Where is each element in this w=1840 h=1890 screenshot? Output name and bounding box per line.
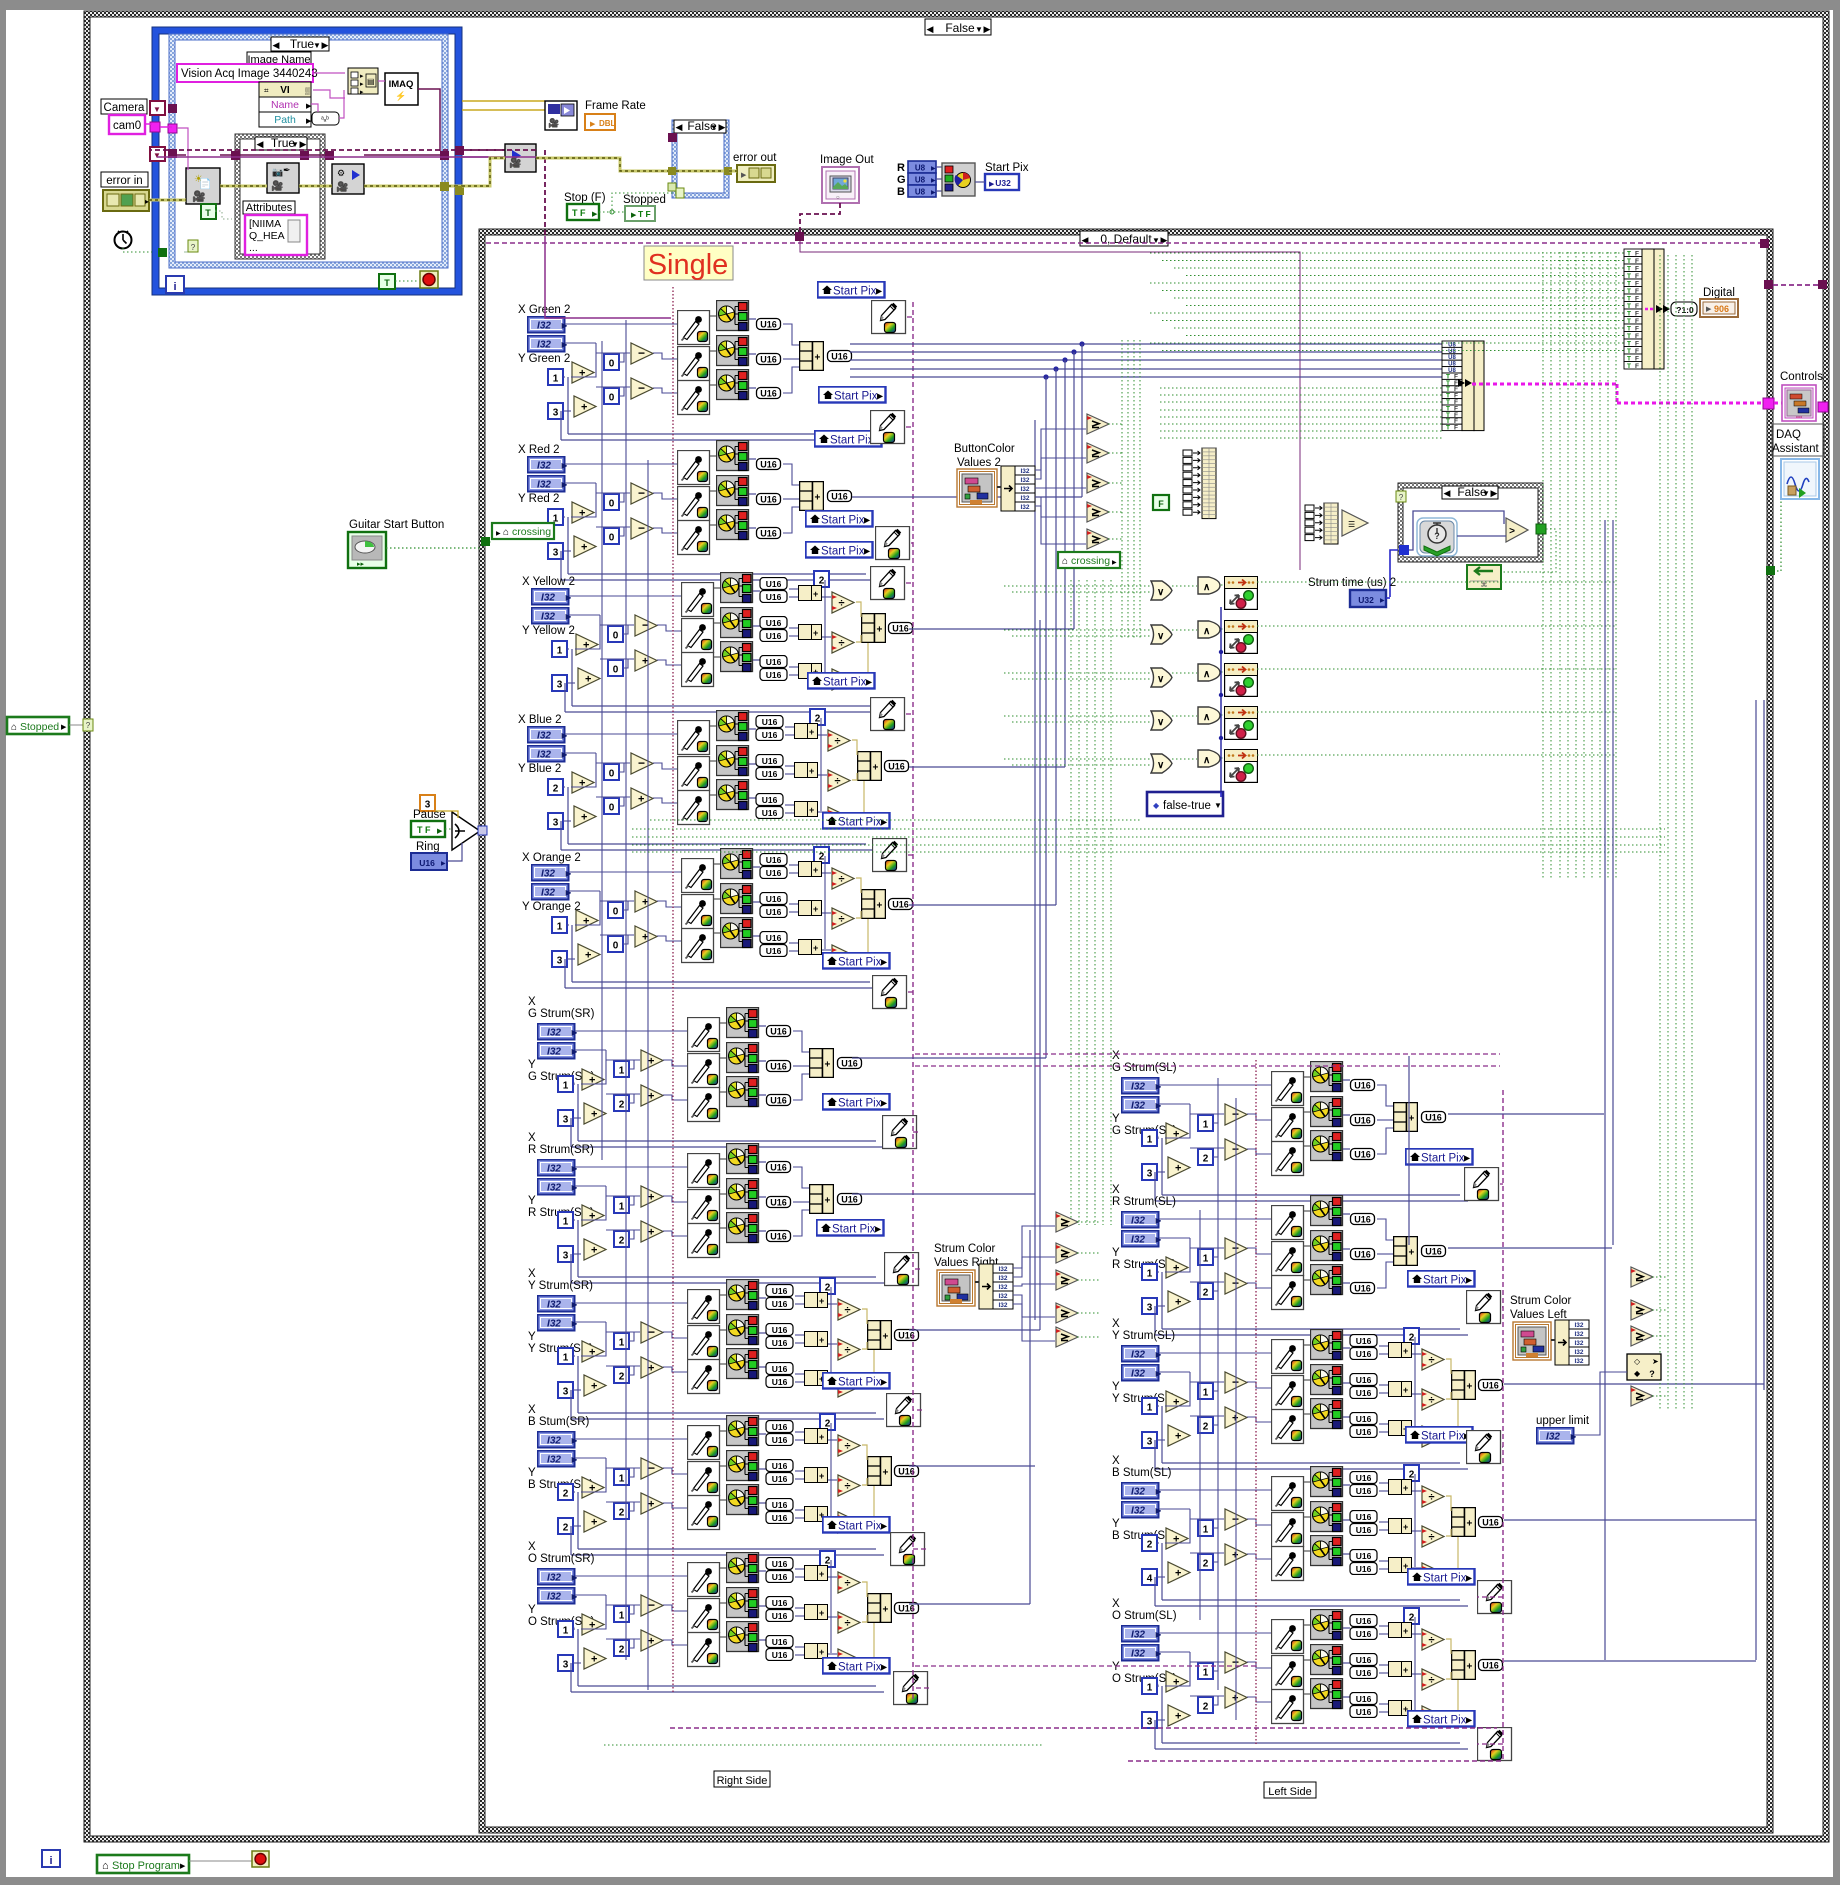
svg-text:▶: ▶: [496, 531, 501, 537]
RGB cluster R Strum(SL) 1: [1311, 1196, 1343, 1226]
svg-text:I32: I32: [1574, 1358, 1583, 1365]
purple pen chain column 1: [912, 302, 914, 1700]
constant 1 Y Strum(SL): [1198, 1383, 1213, 1399]
svg-text:▶: ▶: [719, 122, 726, 132]
wire crossing left: [485, 541, 492, 543]
constant 2 B Stum(SL): [1198, 1554, 1213, 1570]
wire pen to chain: [906, 426, 913, 428]
constant 2 R Strum(SL): [1198, 1283, 1213, 1299]
wire pen to chain: [913, 1548, 926, 1550]
divide B Stum(SR) 2: [838, 1475, 860, 1496]
error wire to false case: [462, 158, 505, 186]
svg-text:1: 1: [1203, 1525, 1209, 1536]
constant 3 X Green 2: [548, 403, 563, 419]
tag U16 out R Strum(SR): [838, 1194, 862, 1205]
add X Orange 2 2: [578, 944, 600, 965]
sub B Stum(SR) 2: [641, 1493, 663, 1514]
color dropper G Strum(SL) 1: [1272, 1072, 1304, 1106]
constant 2 X Blue 2: [810, 709, 825, 725]
svg-text:I32: I32: [1020, 495, 1029, 502]
IMAQ overlay pen node 8: [883, 1116, 917, 1149]
tag U16 B Stum(SL) 3: [1350, 1511, 1377, 1523]
string control cam0: [109, 115, 145, 134]
svg-text:X: X: [528, 996, 536, 1008]
purple wire exits right: [1773, 284, 1822, 286]
free label Single: [644, 246, 733, 280]
svg-text:▼: ▼: [1214, 801, 1222, 810]
RGB cluster X Blue 2 1: [717, 711, 749, 741]
color dropper R Strum(SR) 1: [688, 1154, 720, 1188]
tag U16 X Orange 2 2: [760, 867, 787, 879]
bundle B Stum(SL): [1452, 1508, 1476, 1537]
Digital indicator: [1700, 299, 1738, 317]
terminal I32 X O Strum(SR): [538, 1569, 579, 1585]
tag U16 X Yellow 2 6: [760, 669, 787, 681]
mini bundle O Strum(SL) 3: [1389, 1701, 1412, 1716]
sub Y Strum(SR) 1: [641, 1322, 663, 1343]
tag U16 B Stum(SL) 1: [1350, 1472, 1377, 1484]
svg-text:X Yellow 2: X Yellow 2: [522, 576, 575, 588]
svg-text:VI: VI: [280, 85, 290, 96]
svg-text:Left Side: Left Side: [1268, 1786, 1311, 1798]
tag U16 out G Strum(SR): [838, 1058, 862, 1069]
green dotted verticals right: [1542, 252, 1544, 880]
bundle B Stum(SR): [868, 1457, 892, 1486]
color dropper X Red 2 3: [678, 521, 710, 555]
svg-text:U8: U8: [915, 176, 926, 185]
constant 1 R Strum(SR): [614, 1197, 629, 1213]
svg-text:◀: ◀: [257, 139, 264, 149]
sub X Yellow 2 1: [635, 615, 657, 636]
svg-text:0: 0: [613, 665, 619, 676]
svg-text:U32: U32: [1358, 595, 1374, 605]
blue wire bundle to byte arrays: [850, 343, 1442, 345]
svg-text:Guitar Start Button: Guitar Start Button: [349, 519, 444, 531]
constant 2 X Yellow 2: [814, 571, 829, 587]
svg-text:X Red 2: X Red 2: [518, 444, 560, 456]
svg-text:2: 2: [1203, 1559, 1209, 1570]
color dropper X Yellow 2 2: [682, 619, 714, 653]
tag U16 out X Red 2: [828, 491, 852, 502]
divide B Stum(SR) 3: [838, 1512, 860, 1533]
svg-text:2: 2: [563, 1523, 569, 1534]
svg-text:Q_HEA: Q_HEA: [249, 230, 285, 242]
constant 0 X Orange 2: [608, 936, 623, 952]
constant 2 X Blue 2: [548, 779, 563, 795]
IMAQ overlay pen node 5: [871, 698, 905, 731]
convert arrows 1: [1458, 379, 1472, 387]
tag U16 B Stum(SR) 5: [766, 1499, 793, 1511]
terminal I32 X X Green 2: [528, 317, 569, 333]
svg-text:Vision Acq Image 3440243: Vision Acq Image 3440243: [181, 68, 318, 80]
sub X Orange 2 1: [635, 891, 657, 912]
mini bundle X Yellow 2 1: [799, 586, 822, 601]
add B Stum(SL) 2: [1168, 1562, 1190, 1583]
RGB cluster O Strum(SL) 1: [1311, 1610, 1343, 1640]
svg-text:X: X: [1112, 1318, 1120, 1330]
constant 2 X Orange 2: [814, 847, 829, 863]
outer case structure False frame: [84, 11, 1829, 17]
green horizontals mid rows: [1160, 387, 1442, 389]
add Y Strum(SR) 1: [582, 1341, 604, 1362]
divide X Orange 2 3: [832, 945, 854, 966]
svg-text:Y Strum(SR): Y Strum(SR): [528, 1280, 593, 1292]
svg-text:I32: I32: [998, 1302, 1007, 1309]
RGB cluster Y Strum(SR) 2: [727, 1315, 759, 1345]
svg-text:2: 2: [825, 1283, 831, 1294]
wire to stop button: [189, 1860, 252, 1862]
svg-text:2: 2: [1203, 1702, 1209, 1713]
strum SR outputs to mid verticals: [852, 1193, 1035, 1195]
long green dotted horizontals bottom: [632, 828, 1665, 830]
svg-text:Assistant: Assistant: [1772, 443, 1819, 455]
svg-text:T: T: [1627, 363, 1631, 370]
tag U16 B Stum(SL) 4: [1350, 1524, 1377, 1536]
svg-text:T F: T F: [417, 825, 431, 835]
tag U16 X Yellow 2 2: [760, 591, 787, 603]
divide Y Strum(SR) 2: [838, 1339, 860, 1360]
constant 0 X Orange 2: [608, 902, 623, 918]
svg-text:X: X: [528, 1404, 536, 1416]
svg-text:▼: ▼: [153, 105, 161, 114]
tag U16 out O Strum(SL): [1479, 1660, 1503, 1671]
greater than comparator: [1506, 518, 1528, 542]
return arrow icon: [1467, 565, 1501, 589]
svg-text:Path: Path: [274, 114, 296, 126]
svg-text:1: 1: [619, 1338, 625, 1349]
svg-text:◀: ◀: [273, 40, 280, 50]
add X Blue 2 1: [572, 772, 594, 793]
and gate 2: [1198, 621, 1220, 638]
tag U16 B Stum(SL) 2: [1350, 1485, 1377, 1497]
svg-text:0: 0: [609, 803, 615, 814]
constant 1 B Stum(SL): [1198, 1520, 1213, 1536]
svg-text:🎥: 🎥: [548, 117, 559, 128]
DBL indicator: [585, 114, 615, 130]
constant 2 B Stum(SR): [820, 1414, 835, 1430]
RGB cluster G Strum(SL) 1: [1311, 1062, 1343, 1092]
case structure True (blue hatched): [169, 34, 448, 40]
wire pen to chain: [1502, 1446, 1503, 1448]
svg-text:4: 4: [1147, 1574, 1153, 1585]
tag U16 G Strum(SL) 3: [1351, 1149, 1375, 1160]
bundle Y Strum(SL): [1452, 1371, 1476, 1400]
svg-text:3: 3: [553, 548, 559, 559]
transition cluster 1: [1225, 577, 1258, 610]
svg-text:2: 2: [553, 784, 559, 795]
svg-text:🎥: 🎥: [509, 156, 521, 169]
svg-text:0: 0: [609, 359, 615, 370]
svg-text:Controls: Controls: [1780, 371, 1823, 383]
constant 2 Y Strum(SR): [820, 1278, 835, 1294]
svg-text:▶: ▶: [989, 181, 995, 188]
constant 0 X Yellow 2: [608, 660, 623, 676]
svg-text:▶: ▶: [631, 212, 637, 219]
green long horizontal lower: [604, 1744, 1043, 1746]
divide B Stum(SL) 2: [1422, 1526, 1444, 1547]
terminal I32 Y X Red 2: [528, 476, 569, 492]
control label Camera: [101, 99, 147, 114]
constant 0 X Red 2: [604, 528, 619, 544]
terminal I32 X O Strum(SL): [1122, 1626, 1163, 1642]
svg-text:⌗: ⌗: [264, 86, 269, 95]
wire pen to chain: [908, 854, 913, 856]
wire pen to chain: [908, 991, 913, 993]
terminal I32 X B Stum(SR): [538, 1432, 579, 1448]
svg-text:▶: ▶: [984, 24, 991, 34]
or gate 5: [1151, 754, 1172, 773]
svg-text:▼: ▼: [153, 151, 161, 160]
Strum Color Values Left cluster: [1513, 1322, 1551, 1360]
tag U16 X Yellow 2 3: [760, 617, 787, 629]
mini bundle O Strum(SL) 1: [1389, 1623, 1412, 1638]
tag U16 X Blue 2 2: [756, 729, 783, 741]
sub X Green 2 1: [631, 343, 653, 364]
svg-text:▸: ▸: [360, 89, 364, 96]
svg-text:Stop Program: Stop Program: [112, 1860, 180, 1872]
RGB cluster X Orange 2 1: [721, 849, 753, 879]
svg-text:2: 2: [619, 1645, 625, 1656]
svg-text:1: 1: [1203, 1668, 1209, 1679]
svg-text:1: 1: [1147, 1683, 1153, 1694]
constant 1 O Strum(SL): [1142, 1678, 1157, 1694]
RGB cluster O Strum(SL) 2: [1311, 1645, 1343, 1675]
tag U16 out R Strum(SL): [1422, 1246, 1446, 1257]
RGB cluster B Stum(SR) 3: [727, 1485, 759, 1515]
svg-text:U16: U16: [419, 858, 435, 868]
IMAQ overlay pen node 11: [891, 1533, 925, 1566]
bundle G Strum(SR): [810, 1049, 834, 1078]
svg-text:1: 1: [563, 1081, 569, 1092]
sub O Strum(SL) 2: [1225, 1687, 1247, 1708]
svg-text:i: i: [173, 281, 176, 293]
constant 3 X Red 2: [548, 543, 563, 559]
green horizontal rows to TF array: [1150, 252, 1624, 254]
string constant Vision Acq Image 3440243: [177, 64, 313, 82]
or gate 3: [1151, 668, 1172, 687]
svg-text:DBL: DBL: [599, 119, 616, 128]
local variable Start Pix 14: [1406, 1149, 1473, 1165]
svg-text:R Strum(SL): R Strum(SL): [1112, 1196, 1176, 1208]
svg-text:I32: I32: [1574, 1340, 1583, 1347]
svg-text:Y Red 2: Y Red 2: [518, 493, 559, 505]
svg-text:2: 2: [815, 714, 821, 725]
svg-text:▶: ▶: [931, 190, 936, 196]
svg-text:▶: ▶: [306, 118, 312, 125]
constant 1 X Red 2: [548, 509, 563, 525]
RGB cluster G Strum(SR) 2: [727, 1043, 759, 1073]
svg-text:Y Green 2: Y Green 2: [518, 353, 570, 365]
svg-text:✒: ✒: [283, 165, 291, 175]
RGB cluster X Blue 2 2: [717, 746, 749, 776]
svg-text:▶: ▶: [300, 139, 307, 149]
svg-text:▶: ▶: [931, 178, 936, 184]
svg-text:2: 2: [1147, 1540, 1153, 1551]
terminal I32 Y X Orange 2: [532, 884, 573, 900]
color dropper R Strum(SL) 2: [1272, 1242, 1304, 1276]
error out indicator: [737, 165, 775, 182]
svg-text:G: G: [897, 174, 906, 186]
svg-text:2: 2: [619, 1372, 625, 1383]
terminal I32 Y X Yellow 2: [532, 608, 573, 624]
constant 2 B Stum(SL): [1404, 1465, 1419, 1481]
constant 3 O Strum(SR): [558, 1655, 573, 1671]
svg-text:3: 3: [1147, 1303, 1153, 1314]
constant 1 X Yellow 2: [552, 641, 567, 657]
Strum Color Values Right cluster: [937, 1270, 975, 1306]
tag U16 B Stum(SR) 2: [766, 1434, 793, 1446]
svg-text:I32: I32: [1020, 477, 1029, 484]
svg-text:1: 1: [1147, 1269, 1153, 1280]
svg-text:?: ?: [1434, 531, 1440, 541]
svg-text:1: 1: [1147, 1135, 1153, 1146]
svg-text:0: 0: [613, 631, 619, 642]
svg-text:2: 2: [619, 1508, 625, 1519]
terminal I32 X X Blue 2: [528, 727, 569, 743]
svg-text:ᵃₐᵇ: ᵃₐᵇ: [321, 116, 329, 123]
strum left comparators: [1631, 1267, 1653, 1287]
tag U16 O Strum(SL) 3: [1350, 1654, 1377, 1666]
local variable Start Pix 3: [815, 431, 882, 447]
svg-text:2: 2: [825, 1419, 831, 1430]
label Attributes: [243, 201, 295, 214]
svg-text:1: 1: [557, 646, 563, 657]
constant 1 G Strum(SL): [1198, 1115, 1213, 1131]
mini bundle O Strum(SR) 3: [805, 1644, 828, 1659]
color dropper R Strum(SR) 3: [688, 1224, 720, 1258]
svg-text:Y: Y: [1112, 1661, 1120, 1673]
svg-text:2: 2: [819, 852, 825, 863]
add Y Strum(SL) 2: [1168, 1425, 1190, 1446]
purple wire top of big case: [486, 242, 1764, 244]
add Y Strum(SL) 1: [1166, 1391, 1188, 1412]
local variable Start Pix 1: [818, 282, 885, 298]
in range and coerce: [1627, 1354, 1661, 1380]
wire pen to chain: [1477, 1743, 1503, 1745]
svg-text:cam0: cam0: [113, 120, 141, 132]
or gate 2: [1151, 625, 1172, 644]
local variable Start Pix 7: [823, 813, 890, 829]
RGB cluster X Orange 2 2: [721, 884, 753, 914]
svg-text:?: ?: [1399, 493, 1404, 502]
green wire to DAQ: [1773, 500, 1781, 571]
svg-text:T F: T F: [638, 209, 651, 219]
sub G Strum(SL) 1: [1225, 1104, 1247, 1125]
local variable Start Pix 12: [823, 1517, 890, 1533]
mini bundle Y Strum(SL) 3: [1389, 1421, 1412, 1436]
svg-text:[NIIMA: [NIIMA: [249, 218, 281, 230]
constant 1 R Strum(SR): [558, 1212, 573, 1228]
constant 1 X Orange 2: [552, 917, 567, 933]
add Y Strum(SR) 2: [584, 1375, 606, 1396]
RGB cluster B Stum(SL) 2: [1311, 1502, 1343, 1532]
svg-text:◆: ◆: [1153, 801, 1160, 810]
local variable Start Pix 10: [817, 1220, 884, 1236]
mini bundle B Stum(SL) 2: [1389, 1519, 1412, 1534]
color dropper X Green 2 2: [678, 347, 710, 381]
sub G Strum(SR) 1: [641, 1050, 663, 1071]
svg-text:?: ?: [86, 721, 91, 730]
terminal I32 X Y Strum(SR): [538, 1296, 579, 1312]
svg-text:I32: I32: [1020, 468, 1029, 475]
divide X Blue 2 2: [828, 770, 850, 791]
tag U16 O Strum(SR) 2: [766, 1571, 793, 1583]
terminal I32 Y B Stum(SR): [538, 1451, 579, 1467]
svg-text:error in: error in: [106, 175, 142, 187]
label error in: [101, 172, 148, 187]
divide B Stum(SR) 1: [838, 1435, 860, 1456]
local variable Start Pix 2: [819, 387, 886, 403]
svg-text:▶: ▶: [1491, 488, 1498, 498]
svg-text:▶: ▶: [61, 724, 67, 731]
mini bundle Y Strum(SL) 1: [1389, 1343, 1412, 1358]
svg-text:Frame Rate: Frame Rate: [585, 100, 646, 112]
color dropper X Red 2 2: [678, 487, 710, 521]
RGB cluster Y Strum(SL) 2: [1311, 1365, 1343, 1395]
svg-text:X Orange 2: X Orange 2: [522, 852, 581, 864]
add R Strum(SL) 2: [1168, 1291, 1190, 1312]
svg-text:I32: I32: [1020, 504, 1029, 511]
wires timer case: [1390, 550, 1398, 597]
constant 2 Y Strum(SL): [1404, 1328, 1419, 1344]
tag U16 X Yellow 2 1: [760, 578, 787, 590]
tag U16 Y Strum(SR) 6: [766, 1376, 793, 1388]
terminal I32 Y R Strum(SR): [538, 1179, 579, 1195]
tag U16 O Strum(SR) 3: [766, 1597, 793, 1609]
terminal I32 Y B Stum(SL): [1122, 1502, 1163, 1518]
constant 2 O Strum(SL): [1404, 1608, 1419, 1624]
svg-text:ButtonColor: ButtonColor: [954, 443, 1015, 455]
tag U16 B Stum(SL) 5: [1350, 1550, 1377, 1562]
svg-text:3: 3: [1147, 1169, 1153, 1180]
wire frame-rate yellow: [462, 100, 545, 102]
svg-text:Strum time (us) 2: Strum time (us) 2: [1308, 577, 1396, 589]
svg-text:Single: Single: [648, 249, 729, 281]
or gate 4: [1151, 711, 1172, 730]
RGB cluster O Strum(SL) 3: [1311, 1679, 1343, 1709]
sub R Strum(SL) 2: [1225, 1273, 1247, 1294]
svg-text:Y: Y: [1112, 1113, 1120, 1125]
tag U16 out B Stum(SL): [1479, 1517, 1503, 1528]
color dropper X Blue 2 3: [678, 791, 710, 825]
svg-text:X: X: [1112, 1184, 1120, 1196]
svg-text:▸▸: ▸▸: [357, 561, 365, 568]
mini bundle O Strum(SL) 2: [1389, 1662, 1412, 1677]
constant 1 B Stum(SR): [614, 1469, 629, 1485]
local variable Start Pix 9: [823, 1094, 890, 1110]
tag U16 O Strum(SL) 6: [1350, 1706, 1377, 1718]
constant 0 X Red 2: [604, 494, 619, 510]
RGB cluster Y Strum(SR) 3: [727, 1349, 759, 1379]
svg-text:2: 2: [1203, 1288, 1209, 1299]
maroon dotted vertical wire column 1: [672, 287, 674, 1692]
tag U16 X Blue 2 4: [756, 768, 783, 780]
svg-text:Values Left: Values Left: [1510, 1309, 1567, 1321]
constant 3 R Strum(SR): [558, 1246, 573, 1262]
divide Y Strum(SR) 1: [838, 1299, 860, 1320]
tag U16 X Orange 2 4: [760, 906, 787, 918]
tag U16 X Blue 2 3: [756, 755, 783, 767]
loop condition TF and stop button: [379, 274, 395, 289]
sub B Stum(SR) 1: [641, 1458, 663, 1479]
color dropper X Yellow 2 3: [682, 653, 714, 687]
svg-text:F: F: [1454, 425, 1458, 432]
tag U16 Y Strum(SR) 3: [766, 1324, 793, 1336]
svg-text:Right Side: Right Side: [717, 1775, 768, 1787]
svg-text:0: 0: [609, 533, 615, 544]
ButtonColor Values 2 cluster constant: [957, 469, 997, 507]
wire purple to IMAQ close: [462, 149, 505, 151]
